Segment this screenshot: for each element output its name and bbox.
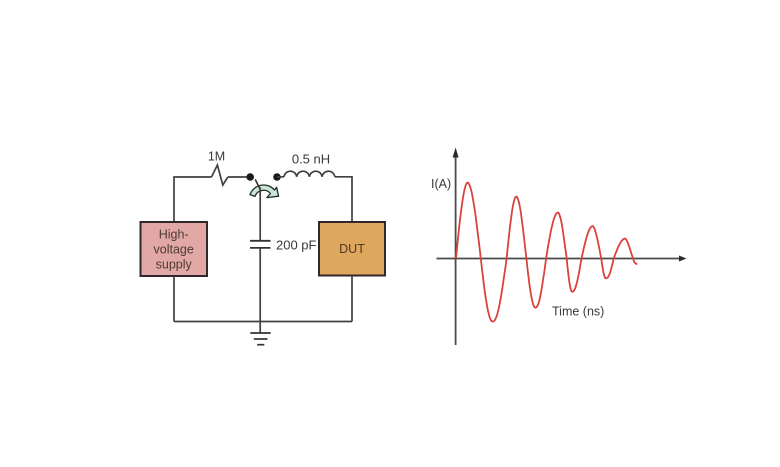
- svg-text:supply: supply: [156, 258, 193, 272]
- box: DUT: [319, 222, 385, 276]
- node: switch right contact dot: [273, 173, 281, 181]
- switch blade: [255, 179, 260, 189]
- svg-text:Time (ns): Time (ns): [552, 305, 604, 319]
- svg-text:voltage: voltage: [154, 243, 194, 257]
- graph x-axis Time: [437, 258, 681, 260]
- svg-text:DUT: DUT: [339, 242, 365, 256]
- svg-text:0.5 nH: 0.5 nH: [292, 152, 330, 167]
- ground: [250, 332, 270, 334]
- wire: HV supply down to bus: [173, 276, 175, 322]
- graph y-axis I(A): [455, 156, 457, 345]
- svg-text:1M: 1M: [208, 150, 225, 164]
- box: high-voltage supply: [141, 222, 208, 276]
- resistor R 1M zigzag: [212, 165, 228, 185]
- svg-text:High-: High-: [159, 228, 189, 242]
- wire: inductor to DUT: [335, 177, 352, 222]
- wire: bottom bus: [174, 321, 352, 323]
- wire: inductor lead from right contact: [277, 176, 284, 178]
- capacitor C 200 pF plates: [250, 240, 271, 242]
- node: switch left contact dot: [246, 173, 254, 181]
- switch rotation arrow (green): [250, 185, 279, 198]
- svg-text:I(A): I(A): [431, 177, 451, 191]
- wire: top-left from HV supply up and right to resistor: [174, 177, 212, 222]
- inductor L 0.5 nH: [284, 171, 335, 177]
- svg-text:200 pF: 200 pF: [276, 238, 317, 253]
- wire: capacitor down to ground bus: [259, 248, 261, 333]
- waveform: damped ringing current: [456, 183, 637, 322]
- wire: resistor to switch left contact: [228, 176, 250, 178]
- wire: switch pivot down to capacitor: [259, 188, 261, 241]
- wire: DUT down to bus: [351, 276, 353, 322]
